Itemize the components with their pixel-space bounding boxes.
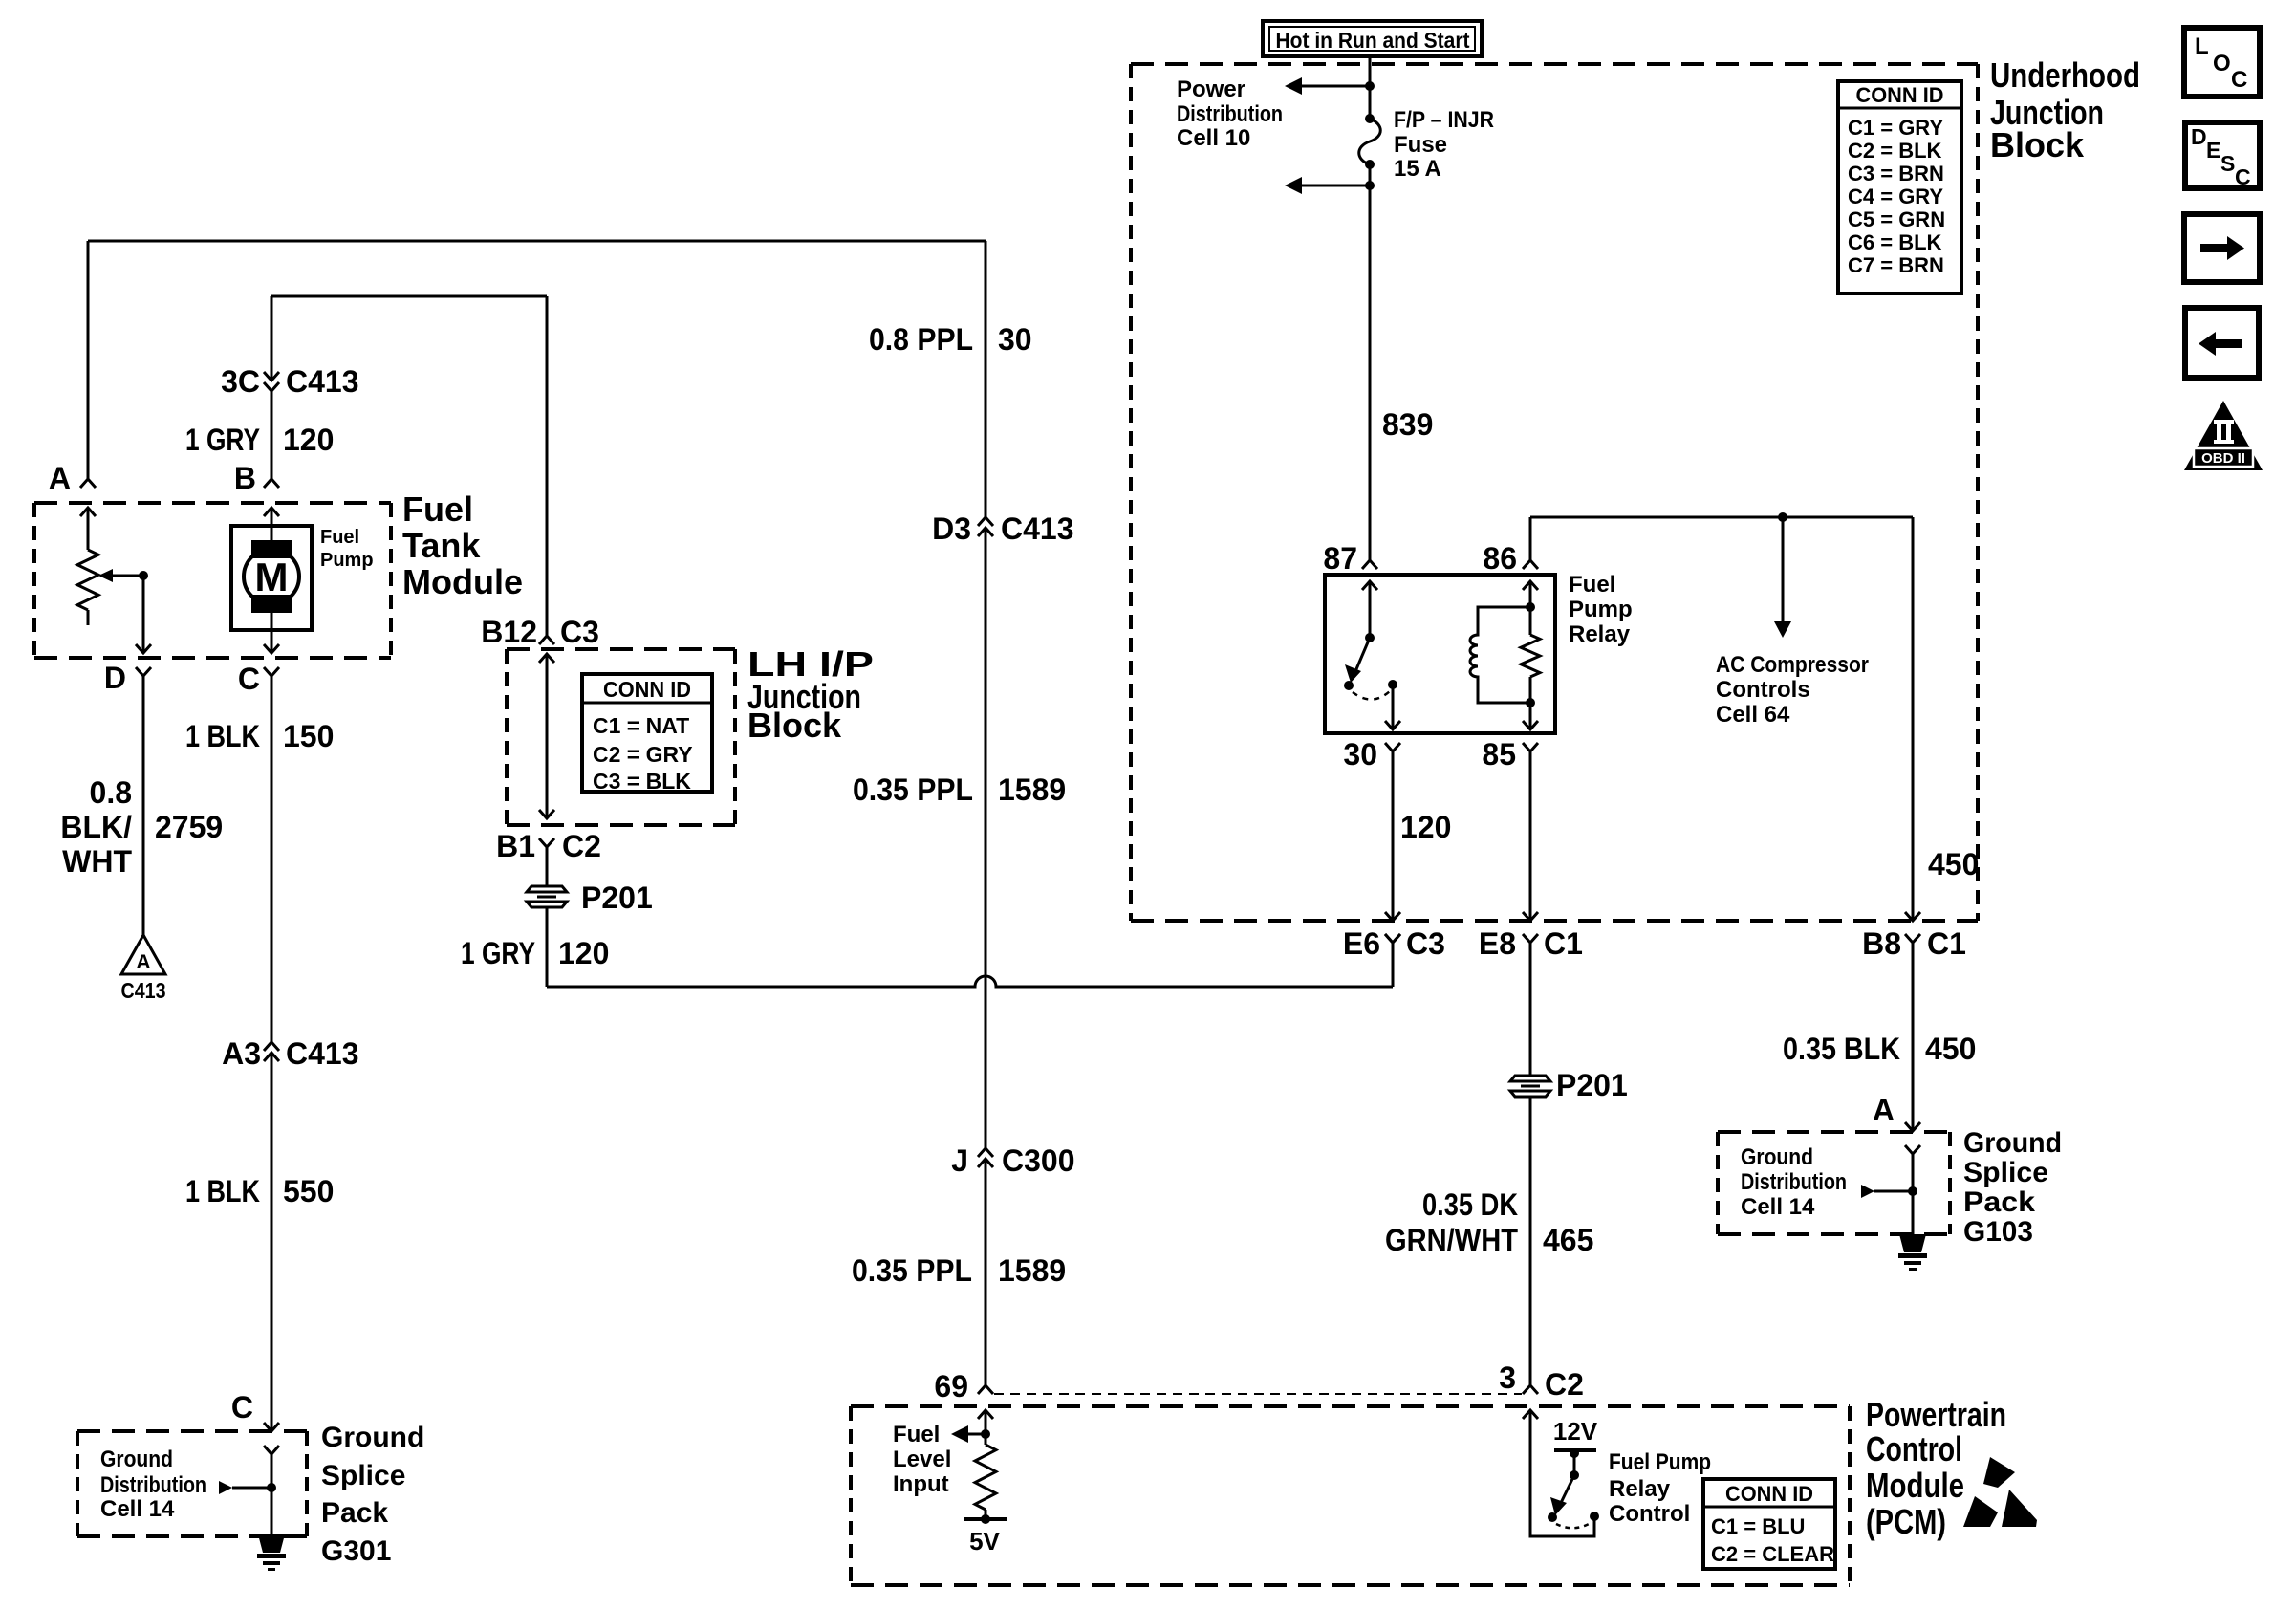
- svg-text:G301: G301: [321, 1535, 391, 1567]
- svg-text:C7 = BRN: C7 = BRN: [1848, 253, 1944, 277]
- svg-text:Control: Control: [1609, 1501, 1690, 1527]
- svg-text:0.35 PPL: 0.35 PPL: [853, 772, 973, 807]
- svg-text:Fuse: Fuse: [1394, 132, 1447, 158]
- svg-text:C413: C413: [1001, 511, 1074, 546]
- svg-text:C: C: [2235, 164, 2251, 189]
- svg-text:Block: Block: [1990, 125, 2085, 164]
- svg-text:C1: C1: [1927, 926, 1966, 961]
- svg-text:C413: C413: [286, 1036, 359, 1071]
- svg-text:Relay: Relay: [1569, 621, 1631, 647]
- svg-text:Level: Level: [893, 1447, 951, 1472]
- svg-text:Underhood: Underhood: [1990, 55, 2140, 95]
- svg-text:Fuel Pump: Fuel Pump: [1609, 1449, 1711, 1475]
- svg-text:C5 = GRN: C5 = GRN: [1848, 207, 1945, 231]
- svg-text:0.8 PPL: 0.8 PPL: [869, 322, 973, 357]
- svg-text:Control: Control: [1866, 1429, 1962, 1469]
- svg-text:P201: P201: [1556, 1068, 1628, 1102]
- svg-text:30: 30: [1343, 737, 1377, 772]
- svg-text:550: 550: [283, 1174, 334, 1208]
- svg-text:Splice: Splice: [1963, 1157, 2048, 1188]
- svg-text:B: B: [234, 461, 256, 495]
- svg-text:CONN ID: CONN ID: [1856, 83, 1944, 107]
- svg-text:1 BLK: 1 BLK: [185, 719, 260, 753]
- svg-text:C: C: [238, 662, 260, 696]
- svg-text:C: C: [2231, 67, 2247, 93]
- svg-text:Input: Input: [893, 1471, 949, 1497]
- svg-text:A: A: [1873, 1093, 1895, 1127]
- svg-text:0.35 BLK: 0.35 BLK: [1783, 1032, 1900, 1066]
- svg-text:E6: E6: [1343, 926, 1380, 961]
- svg-text:C4 = GRY: C4 = GRY: [1848, 185, 1943, 208]
- svg-text:Distribution: Distribution: [100, 1472, 206, 1498]
- svg-text:C3 = BRN: C3 = BRN: [1848, 162, 1944, 185]
- svg-text:S: S: [2220, 151, 2235, 176]
- svg-text:1589: 1589: [998, 772, 1066, 807]
- svg-text:2759: 2759: [155, 810, 223, 844]
- svg-text:C1 = BLU: C1 = BLU: [1711, 1514, 1805, 1538]
- svg-text:C3: C3: [560, 615, 599, 649]
- svg-text:Cell 64: Cell 64: [1716, 702, 1790, 728]
- svg-text:Splice: Splice: [321, 1460, 405, 1491]
- svg-text:C1: C1: [1544, 926, 1583, 961]
- svg-text:450: 450: [1925, 1032, 1976, 1066]
- svg-text:150: 150: [283, 719, 334, 753]
- svg-text:G103: G103: [1963, 1216, 2033, 1248]
- svg-text:86: 86: [1483, 541, 1517, 576]
- svg-text:C2: C2: [562, 829, 601, 863]
- svg-text:C2 = GRY: C2 = GRY: [593, 742, 693, 767]
- svg-text:120: 120: [558, 936, 609, 970]
- svg-text:15 A: 15 A: [1394, 156, 1441, 182]
- svg-text:Power: Power: [1177, 76, 1245, 102]
- svg-text:B12: B12: [481, 615, 537, 649]
- svg-text:Module: Module: [402, 562, 523, 601]
- svg-text:12V: 12V: [1553, 1417, 1598, 1446]
- svg-text:1 GRY: 1 GRY: [185, 423, 260, 457]
- svg-text:3: 3: [1499, 1360, 1516, 1395]
- svg-text:Ground: Ground: [100, 1447, 173, 1472]
- svg-text:87: 87: [1323, 541, 1357, 576]
- svg-text:0.35 PPL: 0.35 PPL: [852, 1253, 972, 1288]
- svg-text:Hot in Run and Start: Hot in Run and Start: [1276, 28, 1470, 53]
- svg-text:C413: C413: [121, 978, 166, 1003]
- svg-text:Cell 14: Cell 14: [1741, 1194, 1815, 1220]
- svg-text:Ground: Ground: [321, 1422, 424, 1453]
- svg-text:C1 = NAT: C1 = NAT: [593, 713, 689, 738]
- svg-text:C: C: [231, 1390, 253, 1425]
- svg-text:Block: Block: [747, 706, 842, 745]
- svg-text:450: 450: [1928, 847, 1979, 881]
- svg-text:D: D: [104, 661, 126, 695]
- svg-text:Distribution: Distribution: [1177, 101, 1283, 127]
- svg-text:C3: C3: [1406, 926, 1445, 961]
- svg-text:Relay: Relay: [1609, 1476, 1671, 1502]
- svg-text:Controls: Controls: [1716, 677, 1810, 703]
- svg-text:Powertrain: Powertrain: [1866, 1395, 2006, 1434]
- svg-text:E: E: [2206, 138, 2220, 163]
- svg-text:69: 69: [934, 1369, 968, 1403]
- svg-text:CONN ID: CONN ID: [603, 677, 691, 702]
- svg-text:E8: E8: [1479, 926, 1516, 961]
- svg-text:120: 120: [283, 423, 334, 457]
- svg-text:D: D: [2191, 124, 2207, 149]
- svg-text:120: 120: [1400, 810, 1451, 844]
- svg-text:Pump: Pump: [1569, 597, 1633, 622]
- svg-text:1 GRY: 1 GRY: [461, 936, 535, 970]
- svg-text:Cell 14: Cell 14: [100, 1496, 175, 1522]
- svg-text:L: L: [2195, 33, 2209, 59]
- svg-text:J: J: [951, 1143, 968, 1178]
- svg-text:C300: C300: [1002, 1143, 1075, 1178]
- svg-text:Module: Module: [1866, 1466, 1964, 1505]
- svg-text:30: 30: [998, 322, 1032, 357]
- svg-text:Tank: Tank: [402, 526, 481, 565]
- svg-text:465: 465: [1543, 1223, 1593, 1257]
- svg-text:C6 = BLK: C6 = BLK: [1848, 230, 1942, 254]
- svg-text:D3: D3: [932, 511, 971, 546]
- svg-text:Pack: Pack: [1963, 1186, 2035, 1218]
- svg-text:B1: B1: [496, 829, 535, 863]
- svg-text:0.35 DK: 0.35 DK: [1422, 1187, 1518, 1222]
- svg-text:C2: C2: [1545, 1367, 1584, 1402]
- svg-text:Pack: Pack: [321, 1497, 388, 1529]
- svg-text:C1 = GRY: C1 = GRY: [1848, 116, 1943, 140]
- svg-text:Fuel: Fuel: [402, 490, 473, 529]
- svg-text:WHT: WHT: [62, 844, 132, 879]
- svg-text:C2 = BLK: C2 = BLK: [1848, 139, 1942, 163]
- svg-text:Distribution: Distribution: [1741, 1169, 1847, 1195]
- svg-text:P201: P201: [581, 881, 653, 915]
- svg-text:3C: 3C: [221, 364, 260, 399]
- svg-text:(PCM): (PCM): [1866, 1502, 1946, 1541]
- svg-text:A3: A3: [222, 1036, 261, 1071]
- svg-text:1 BLK: 1 BLK: [185, 1174, 260, 1208]
- svg-text:839: 839: [1382, 407, 1433, 442]
- svg-text:C413: C413: [286, 364, 359, 399]
- svg-text:Fuel: Fuel: [893, 1422, 940, 1447]
- svg-text:B8: B8: [1862, 926, 1901, 961]
- svg-text:F/P – INJR: F/P – INJR: [1394, 107, 1494, 133]
- svg-text:GRN/WHT: GRN/WHT: [1385, 1223, 1518, 1257]
- svg-text:Ground: Ground: [1963, 1127, 2062, 1159]
- svg-text:OBD II: OBD II: [2201, 450, 2245, 467]
- svg-text:CONN ID: CONN ID: [1725, 1482, 1813, 1506]
- svg-text:Cell 10: Cell 10: [1177, 125, 1250, 151]
- svg-text:Fuel: Fuel: [320, 527, 359, 548]
- svg-text:BLK/: BLK/: [60, 810, 132, 844]
- svg-text:C2 = CLEAR: C2 = CLEAR: [1711, 1542, 1834, 1566]
- svg-text:C3 = BLK: C3 = BLK: [593, 769, 691, 794]
- svg-text:1589: 1589: [998, 1253, 1066, 1288]
- svg-text:M: M: [255, 555, 289, 599]
- svg-text:Ground: Ground: [1741, 1144, 1813, 1170]
- svg-text:85: 85: [1482, 737, 1516, 772]
- svg-text:AC Compressor: AC Compressor: [1716, 652, 1869, 678]
- svg-text:5V: 5V: [969, 1527, 1000, 1556]
- svg-text:0.8: 0.8: [90, 775, 132, 810]
- svg-text:Pump: Pump: [320, 550, 374, 571]
- svg-text:A: A: [49, 461, 71, 495]
- svg-text:A: A: [136, 951, 150, 973]
- svg-text:O: O: [2213, 51, 2231, 76]
- svg-text:Fuel: Fuel: [1569, 572, 1615, 598]
